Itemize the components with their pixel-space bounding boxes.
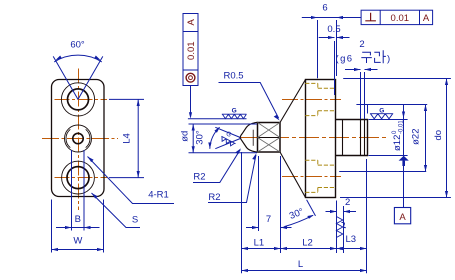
30 degree tip angle extension lines [210, 127, 241, 149]
svg-text:L2: L2 [302, 238, 313, 249]
plate outline [52, 80, 105, 197]
dimension 6 line and FCF leader [302, 18, 361, 96]
square section mid line [258, 137, 281, 139]
middle hole outer circle [65, 125, 92, 152]
svg-text:L1: L1 [254, 238, 265, 249]
svg-text:6: 6 [322, 3, 327, 14]
shaft step line [342, 120, 344, 156]
svg-text:-0.01: -0.01 [399, 120, 405, 134]
svg-text:ø22: ø22 [411, 129, 422, 145]
hangul gan [374, 50, 386, 63]
svg-text:G: G [232, 108, 237, 115]
bottom hidden hole centerline [282, 176, 341, 178]
svg-text:L4: L4 [122, 133, 133, 144]
bottom hole bore circle [67, 167, 89, 189]
svg-text:A: A [399, 212, 406, 223]
top hole bore circle [68, 89, 89, 110]
extension lines bottom [242, 152, 367, 273]
dimension L [242, 270, 367, 272]
30 degree tip angle arc [210, 127, 220, 149]
perpendicularity symbol [365, 13, 376, 21]
middle hole small bore [73, 133, 83, 143]
svg-text:ød: ød [179, 131, 190, 142]
hidden lines bottom counterbored hole [305, 160, 336, 192]
dimension 7 [246, 227, 292, 229]
svg-text:S: S [132, 215, 138, 226]
flange block [306, 80, 336, 198]
svg-text:R2: R2 [193, 171, 205, 182]
concentricity symbol [186, 73, 195, 82]
centerline vertical left view [78, 69, 80, 211]
middle hole thread arcs [66, 129, 90, 147]
svg-text:B: B [75, 214, 81, 225]
svg-text:(g6: (g6 [336, 54, 354, 65]
svg-text:L3: L3 [346, 234, 357, 245]
dimension 0.5 [319, 37, 350, 39]
relief squiggle [342, 222, 346, 227]
svg-text:R0.5: R0.5 [223, 71, 243, 82]
cone upper line [280, 80, 306, 123]
svg-text:R2: R2 [208, 192, 220, 203]
square section block [258, 123, 281, 153]
leader S [92, 193, 141, 228]
svg-text:W: W [73, 236, 82, 247]
svg-text:4-R1: 4-R1 [148, 189, 169, 200]
svg-text:0.5: 0.5 [327, 24, 340, 35]
datum triangle [399, 156, 409, 161]
dimension od extension lines [188, 119, 257, 153]
dimension 2 relief [326, 211, 357, 213]
main axis centerline [239, 137, 388, 139]
leader R0.5 [219, 83, 279, 119]
top hole counterbore circle [61, 83, 94, 116]
svg-text:do: do [433, 130, 444, 141]
hangul gu [361, 52, 372, 63]
svg-text:60°: 60° [70, 40, 85, 51]
dimension row L1 L2 L3 [242, 248, 367, 250]
svg-text:30°: 30° [195, 130, 206, 145]
o12 tolerance label [392, 120, 405, 151]
groove line left [360, 120, 362, 156]
bottom hole counterbore circle [62, 161, 95, 194]
centerline middle hole [42, 138, 118, 140]
tip transition line [252, 130, 254, 146]
dimension o22 line [425, 105, 427, 172]
dimension L4 [109, 99, 144, 177]
tip nose profile [240, 122, 257, 152]
svg-text:ø12: ø12 [392, 135, 403, 151]
FCF stem [190, 86, 192, 115]
leader R2 lower [208, 155, 256, 203]
rotated finish symbol on cone [219, 136, 235, 147]
finish symbol above tip [222, 114, 247, 118]
cone extension line bottom [307, 200, 316, 216]
hidden lines top counterbored hole [305, 83, 336, 192]
svg-text:2: 2 [359, 39, 364, 50]
shaft outline [336, 120, 368, 156]
svg-text:A: A [186, 18, 197, 25]
flat indication diagonals on square section [258, 123, 281, 153]
groove line right [364, 120, 366, 156]
datum A box [394, 208, 410, 224]
30 degree cone angle arc [284, 215, 313, 226]
svg-text:L: L [298, 259, 303, 270]
svg-text:A: A [423, 13, 430, 24]
svg-text:2: 2 [345, 197, 350, 208]
leader 4-R1 [88, 157, 175, 204]
dimension 2 groove [345, 70, 378, 120]
leader R2 upper [193, 150, 240, 183]
dimension do line [446, 79, 448, 198]
svg-text:G: G [379, 107, 384, 114]
60 degree angle dimension [53, 55, 103, 99]
centerline top hole [55, 99, 108, 101]
svg-text:0.01: 0.01 [186, 41, 197, 60]
top hidden hole centerline [282, 99, 341, 101]
extension lines right [339, 79, 451, 198]
svg-text:0: 0 [392, 130, 398, 134]
finish symbol on shaft [370, 114, 393, 119]
svg-text:0.01: 0.01 [391, 13, 410, 24]
relief hatch zigzag [336, 217, 342, 238]
dimension o12 line [403, 105, 405, 208]
svg-text:7: 7 [266, 214, 271, 225]
dimension B [56, 150, 100, 231]
centerline bottom hole [55, 177, 108, 179]
dimension W [52, 200, 104, 253]
cone lower line [280, 152, 306, 198]
svg-text:): ) [387, 54, 390, 65]
